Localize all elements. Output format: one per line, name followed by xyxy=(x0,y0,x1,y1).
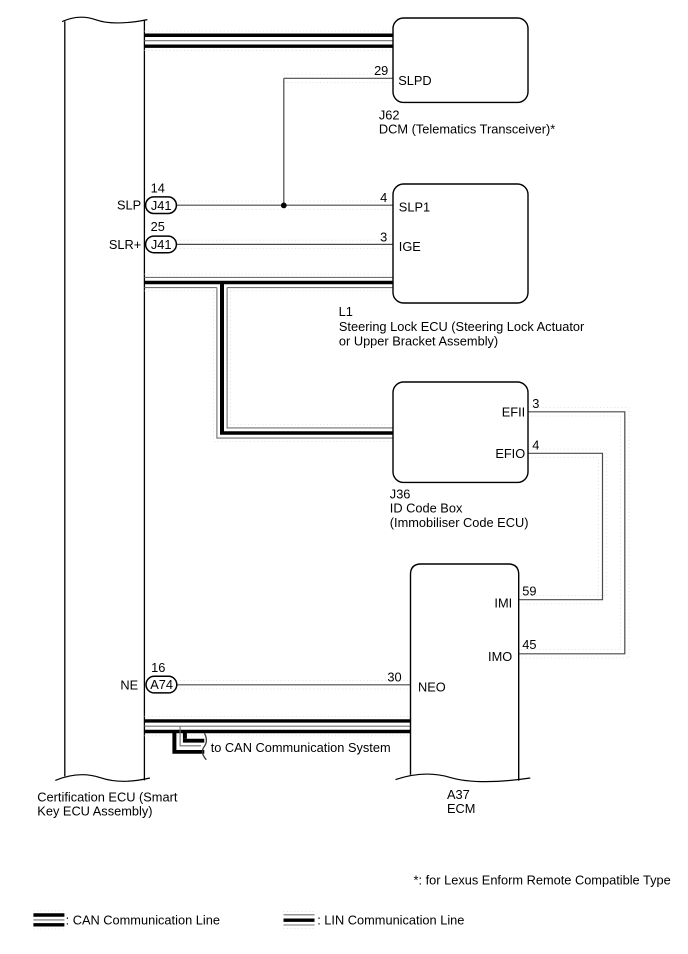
svg-text:Key ECU Assembly): Key ECU Assembly) xyxy=(37,803,152,818)
svg-text:SLP: SLP xyxy=(117,198,141,213)
svg-text:3: 3 xyxy=(532,396,539,411)
svg-text:4: 4 xyxy=(380,190,387,205)
svg-text:Certification ECU (Smart: Certification ECU (Smart xyxy=(37,789,178,804)
svg-text:NEO: NEO xyxy=(418,680,446,695)
svg-text:: CAN Communication Line: : CAN Communication Line xyxy=(66,912,220,927)
svg-text:J62: J62 xyxy=(379,108,400,123)
svg-text:J41: J41 xyxy=(151,237,172,252)
svg-text:SLP1: SLP1 xyxy=(399,199,430,214)
svg-text:EFIO: EFIO xyxy=(495,446,525,461)
svg-text:A74: A74 xyxy=(150,677,173,692)
svg-text:EFII: EFII xyxy=(502,404,525,419)
svg-text:IGE: IGE xyxy=(399,239,421,254)
svg-text:(Immobiliser Code ECU): (Immobiliser Code ECU) xyxy=(390,515,529,530)
svg-text:45: 45 xyxy=(522,637,536,652)
svg-text:J41: J41 xyxy=(151,198,172,213)
svg-text:J36: J36 xyxy=(390,486,411,501)
svg-text:29: 29 xyxy=(374,63,388,78)
svg-text:4: 4 xyxy=(532,437,539,452)
svg-text:L1: L1 xyxy=(339,304,353,319)
svg-text:NE: NE xyxy=(120,677,138,692)
svg-text:IMI: IMI xyxy=(494,595,512,610)
svg-text:ECM: ECM xyxy=(447,801,475,816)
svg-text:A37: A37 xyxy=(447,787,470,802)
svg-text:16: 16 xyxy=(151,660,165,675)
svg-text:: LIN Communication Line: : LIN Communication Line xyxy=(317,912,464,927)
svg-text:SLR+: SLR+ xyxy=(109,237,141,252)
svg-text:to CAN Communication System: to CAN Communication System xyxy=(211,740,391,755)
svg-text:14: 14 xyxy=(151,180,165,195)
svg-text:*: for Lexus Enform Remote Com: *: for Lexus Enform Remote Compatible Ty… xyxy=(414,873,671,888)
svg-text:or Upper Bracket Assembly): or Upper Bracket Assembly) xyxy=(339,333,498,348)
svg-text:SLPD: SLPD xyxy=(398,73,431,88)
svg-text:DCM (Telematics Transceiver)*: DCM (Telematics Transceiver)* xyxy=(379,121,555,136)
svg-text:3: 3 xyxy=(380,229,387,244)
svg-text:59: 59 xyxy=(522,583,536,598)
svg-text:30: 30 xyxy=(387,669,401,684)
svg-text:ID Code Box: ID Code Box xyxy=(390,501,463,516)
svg-text:25: 25 xyxy=(151,219,165,234)
svg-text:IMO: IMO xyxy=(488,649,512,664)
svg-text:Steering Lock ECU (Steering Lo: Steering Lock ECU (Steering Lock Actuato… xyxy=(339,319,585,334)
